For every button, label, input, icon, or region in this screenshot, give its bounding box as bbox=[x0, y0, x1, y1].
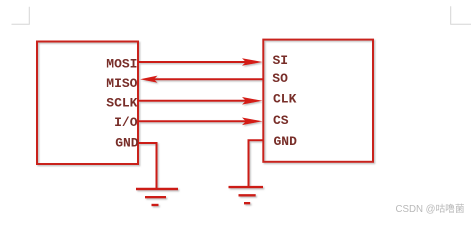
wire MOSI to SI bbox=[138, 61, 248, 63]
wire SO to MISO bbox=[152, 78, 264, 80]
page margin corner mark right bbox=[450, 6, 471, 24]
svg-text:CSDN @咕噜菌: CSDN @咕噜菌 bbox=[396, 202, 465, 215]
wire right GND stub bbox=[249, 140, 264, 186]
svg-text:SI: SI bbox=[273, 53, 289, 68]
svg-text:MOSI: MOSI bbox=[106, 57, 137, 72]
svg-text:GND: GND bbox=[115, 136, 139, 151]
IC box U2 (right slave) bbox=[263, 40, 373, 162]
arrowhead SCLK right bbox=[242, 97, 263, 105]
svg-text:CLK: CLK bbox=[273, 91, 297, 106]
arrowhead CS right bbox=[242, 118, 263, 126]
svg-text:CS: CS bbox=[273, 113, 289, 128]
svg-text:SO: SO bbox=[272, 71, 288, 86]
ground symbol left bbox=[136, 188, 178, 190]
wire SCLK to CLK bbox=[138, 100, 248, 102]
svg-text:I/O: I/O bbox=[114, 115, 138, 130]
arrowhead MOSI right bbox=[242, 58, 263, 66]
wire left GND stub bbox=[138, 143, 157, 189]
ground symbol right bbox=[229, 186, 264, 188]
page margin corner mark left bbox=[12, 7, 30, 24]
svg-text:SCLK: SCLK bbox=[106, 96, 137, 111]
IC box U1 (left master) bbox=[37, 42, 138, 165]
arrowhead MISO left bbox=[140, 76, 158, 83]
wire I/O to CS bbox=[138, 120, 248, 122]
svg-text:MISO: MISO bbox=[106, 76, 137, 91]
svg-text:GND: GND bbox=[274, 134, 298, 149]
